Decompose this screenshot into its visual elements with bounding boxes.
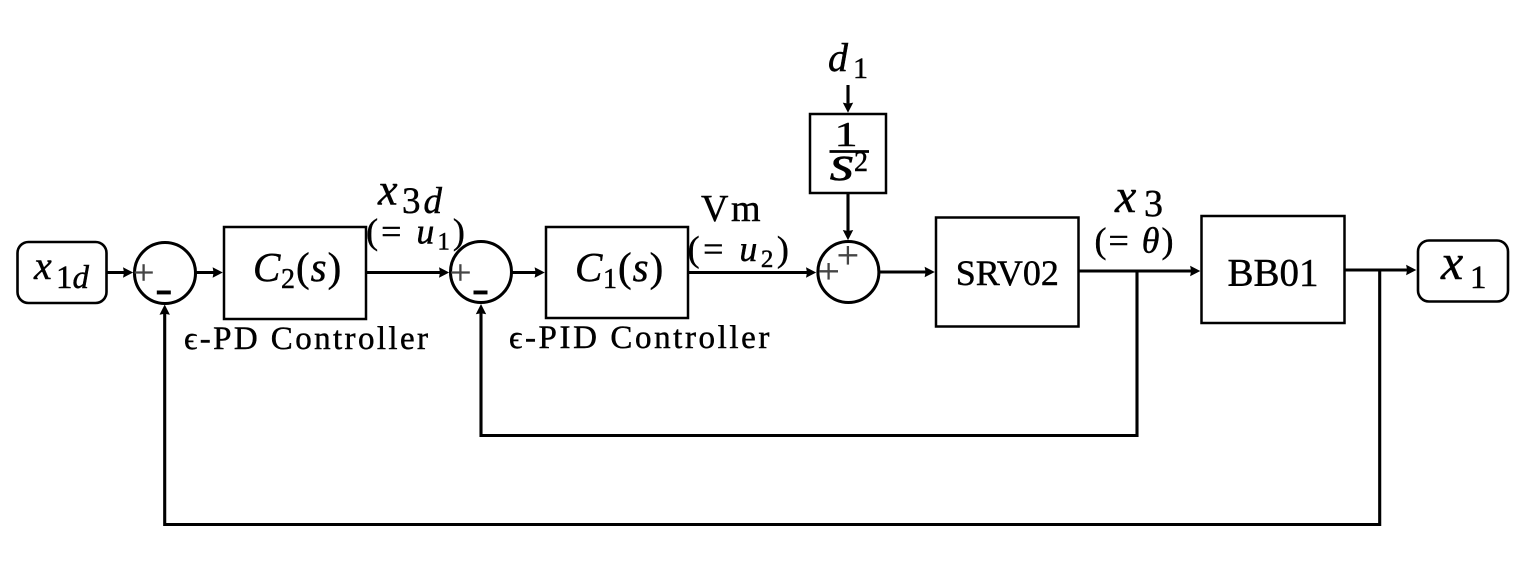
svg-text:x: x (377, 166, 398, 215)
svg-text:C: C (253, 244, 281, 290)
wire x1d to sum1 (107, 267, 134, 277)
outer feedback wire (160, 270, 1380, 525)
svg-text:d: d (828, 35, 849, 80)
svg-text:(= u2): (= u2) (688, 229, 793, 273)
svg-text:SRV02: SRV02 (956, 253, 1059, 293)
plant SRV02 (936, 218, 1079, 327)
wire d1 to integrator (843, 85, 853, 113)
plant BB01 (1202, 216, 1345, 323)
wire BB01 to x1 (1345, 265, 1417, 275)
wire SRV02 to BB01 (1079, 266, 1201, 276)
summing junction S1 (135, 243, 196, 304)
svg-text:ϵ-PD Controller: ϵ-PD Controller (184, 321, 430, 357)
controller C1 (546, 227, 688, 318)
wire integrator to sum3 (843, 193, 853, 240)
summing junction S2 (451, 242, 512, 303)
svg-text:2: 2 (281, 264, 295, 295)
svg-text:1d: 1d (56, 260, 90, 296)
svg-text:(s): (s) (296, 244, 342, 290)
svg-text:3: 3 (1144, 183, 1163, 225)
svg-text:Vm: Vm (701, 188, 763, 230)
svg-text:ϵ-PID Controller: ϵ-PID Controller (509, 320, 772, 356)
wire C1 to sum3 (688, 267, 816, 277)
svg-text:BB01: BB01 (1227, 252, 1318, 295)
svg-text:C: C (575, 244, 603, 290)
svg-text:(s): (s) (618, 244, 664, 290)
svg-text:x: x (33, 243, 52, 288)
svg-text:x: x (1440, 234, 1463, 290)
wire sum3 to SRV02 (879, 267, 935, 277)
node x1 (1418, 234, 1508, 302)
svg-text:(= u1): (= u1) (366, 212, 468, 256)
summing junction S3 (818, 242, 879, 303)
wire sum1 to C2 (196, 267, 223, 277)
svg-text:(= θ): (= θ) (1095, 221, 1176, 261)
svg-text:1: 1 (1470, 260, 1487, 296)
wire sum2 to C1 (512, 267, 545, 277)
integrator block 1/s^2 (810, 114, 886, 193)
inner feedback wire (476, 271, 1137, 436)
svg-text:2: 2 (854, 147, 868, 178)
svg-text:1: 1 (603, 264, 617, 295)
controller C2 (224, 227, 366, 319)
svg-text:x: x (1114, 170, 1136, 223)
svg-text:1: 1 (853, 52, 868, 85)
wire C2 to sum2 (366, 267, 449, 277)
svg-text:s: s (830, 136, 855, 191)
node x1d (18, 242, 107, 303)
